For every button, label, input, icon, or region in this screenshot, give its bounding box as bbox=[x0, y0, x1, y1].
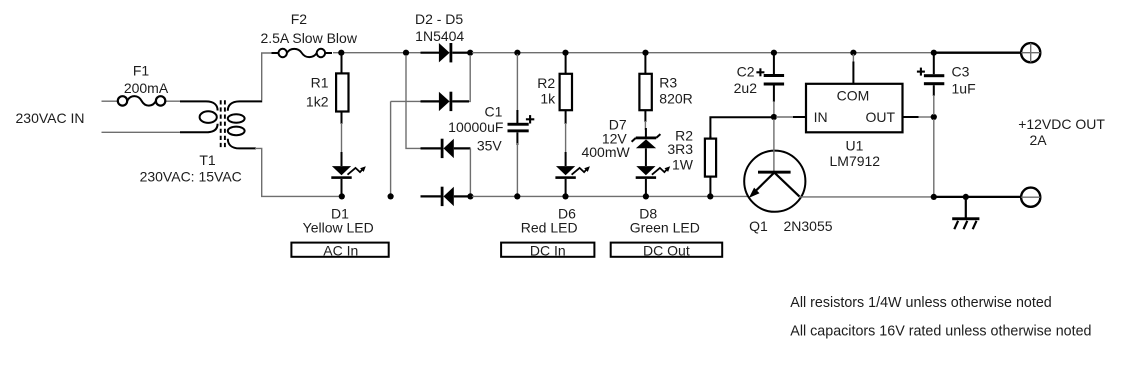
svg-text:1uF: 1uF bbox=[952, 80, 976, 96]
node bridge DC+ bbox=[467, 50, 473, 56]
label D7 voltage bbox=[602, 131, 628, 147]
label T1 ratio bbox=[140, 168, 242, 184]
node bridge AC1 bbox=[403, 50, 409, 56]
label C3 bbox=[952, 64, 970, 80]
node D1 bottom bbox=[339, 193, 345, 199]
resistor R3 bbox=[639, 54, 651, 122]
node IN bbox=[771, 114, 777, 120]
wire AC input bottom bbox=[102, 131, 207, 133]
capacitor C1 bbox=[508, 54, 535, 195]
node COM top bbox=[850, 50, 856, 56]
svg-text:F2: F2 bbox=[291, 11, 308, 27]
wire R2 to D6 bbox=[565, 123, 567, 154]
svg-text:2A: 2A bbox=[1030, 132, 1048, 148]
label R2b value bbox=[667, 141, 693, 157]
label U1 type bbox=[830, 153, 881, 169]
node R2 top bbox=[562, 50, 568, 56]
node C1 bottom bbox=[514, 193, 520, 199]
node R3 top bbox=[642, 50, 648, 56]
diode D3 (bridge second) bbox=[421, 92, 470, 111]
label F2 bbox=[291, 11, 308, 27]
label D6 type bbox=[521, 219, 578, 235]
svg-text:Red LED: Red LED bbox=[521, 219, 578, 235]
label C3 value bbox=[952, 80, 976, 96]
svg-text:Q1: Q1 bbox=[749, 218, 768, 234]
label U1 bbox=[846, 138, 864, 154]
svg-text:OUT: OUT bbox=[866, 109, 896, 125]
label C1 bbox=[485, 103, 503, 119]
fuse F1 bbox=[118, 96, 166, 105]
transformer T1 core bbox=[221, 100, 225, 149]
op-amp U1 regulator box bbox=[806, 84, 903, 133]
label C1 value bbox=[448, 119, 503, 135]
svg-text:2N3055: 2N3055 bbox=[783, 218, 832, 234]
diode D5 (bridge bottom) bbox=[421, 187, 469, 206]
svg-text:1k: 1k bbox=[540, 91, 556, 107]
wire R1 to D1 bbox=[341, 123, 343, 154]
svg-text:DC Out: DC Out bbox=[643, 243, 690, 259]
label Q1 bbox=[749, 218, 768, 234]
wire OUT pin bbox=[903, 116, 933, 118]
wire IN node to U1 bbox=[776, 116, 806, 118]
label R2b power bbox=[672, 156, 694, 172]
svg-text:1W: 1W bbox=[672, 156, 694, 172]
label C2 value bbox=[734, 80, 758, 96]
label D6 bbox=[558, 205, 576, 221]
LED D8 bbox=[636, 166, 671, 195]
node ground bbox=[963, 194, 969, 200]
label C1 voltage bbox=[477, 138, 503, 154]
note capacitors bbox=[790, 324, 1091, 340]
box DC Out bbox=[611, 243, 723, 259]
svg-text:400mW: 400mW bbox=[581, 144, 630, 160]
terminal plus bbox=[1021, 43, 1040, 62]
wire top rail F2 to D2 bbox=[333, 52, 422, 54]
svg-text:820R: 820R bbox=[659, 91, 692, 107]
ground bbox=[952, 197, 979, 229]
label D7 bbox=[609, 117, 627, 133]
node C3 top bbox=[931, 50, 937, 56]
node R1 top bbox=[338, 50, 344, 56]
label R2 bbox=[537, 75, 555, 91]
node C3 bottom bbox=[931, 194, 937, 200]
wire bridge AC1 riser bbox=[406, 55, 422, 148]
label D7 power bbox=[581, 144, 630, 160]
svg-text:COM: COM bbox=[837, 87, 870, 103]
wire R3 to D7 bbox=[644, 121, 646, 130]
box DC In bbox=[501, 243, 594, 259]
svg-text:230VAC IN: 230VAC IN bbox=[16, 110, 85, 126]
label F1 bbox=[133, 62, 150, 78]
wire IN node horizontal bbox=[710, 117, 772, 139]
svg-text:3R3: 3R3 bbox=[667, 141, 693, 157]
svg-text:2.5A Slow Blow: 2.5A Slow Blow bbox=[260, 30, 357, 46]
label F2 value bbox=[260, 30, 357, 46]
svg-text:35V: 35V bbox=[477, 138, 503, 154]
node D6 bottom bbox=[562, 193, 568, 199]
svg-text:IN: IN bbox=[814, 109, 828, 125]
svg-text:C3: C3 bbox=[952, 64, 970, 80]
node C1 top bbox=[514, 50, 520, 56]
terminal minus bbox=[1021, 188, 1040, 207]
wire D3 row bbox=[391, 100, 422, 102]
svg-text:C1: C1 bbox=[485, 103, 503, 119]
wire bridge AC2 riser bbox=[390, 101, 392, 196]
resistor R2 bbox=[560, 54, 572, 124]
note resistors bbox=[790, 295, 1051, 311]
svg-text:Green LED: Green LED bbox=[630, 219, 700, 235]
label R3 bbox=[659, 75, 677, 91]
label R3 value bbox=[659, 91, 692, 107]
svg-text:All resistors 1/4W unless othe: All resistors 1/4W unless otherwise note… bbox=[790, 295, 1051, 311]
transformer T1 primary winding bbox=[200, 101, 218, 132]
svg-text:D2 - D5: D2 - D5 bbox=[415, 11, 463, 27]
node C2 top bbox=[771, 50, 777, 56]
label D2 - D5 bbox=[415, 11, 463, 27]
resistor R2b 3R3 bbox=[705, 136, 716, 195]
svg-text:R2: R2 bbox=[537, 75, 555, 91]
label R2b bbox=[675, 128, 693, 144]
transformer T1 secondary winding bbox=[228, 101, 245, 148]
label R1 value bbox=[306, 94, 329, 110]
svg-text:T1: T1 bbox=[199, 152, 216, 168]
label Q1 type bbox=[783, 218, 832, 234]
svg-text:C2: C2 bbox=[737, 64, 755, 80]
box AC In bbox=[291, 243, 388, 259]
svg-text:DC In: DC In bbox=[530, 243, 566, 259]
LED D6 bbox=[555, 152, 590, 195]
label D8 bbox=[639, 205, 657, 221]
wire top rail to plus terminal bbox=[936, 52, 1021, 54]
wire DC+ riser to D3 bbox=[452, 55, 470, 101]
diode D4 (bridge third) bbox=[421, 139, 471, 158]
label 2A bbox=[1030, 132, 1048, 148]
wire secondary top to F2 riser bbox=[240, 53, 273, 101]
label C2 bbox=[737, 64, 755, 80]
svg-text:2u2: 2u2 bbox=[734, 80, 758, 96]
wire OUT to bottom rail bbox=[933, 119, 935, 195]
svg-text:1k2: 1k2 bbox=[306, 94, 329, 110]
label R2 value bbox=[540, 91, 556, 107]
wire bottom rail DC- to Q1 bbox=[472, 195, 749, 197]
wire bottom rail Q1 to minus terminal bbox=[799, 196, 1021, 198]
label 230VAC IN bbox=[16, 110, 85, 126]
label +12VDC OUT bbox=[1018, 116, 1105, 132]
label D1 type bbox=[303, 219, 374, 235]
capacitor C3 bbox=[917, 54, 944, 115]
svg-text:+12VDC OUT: +12VDC OUT bbox=[1018, 116, 1105, 132]
node bridge AC2 bbox=[388, 193, 394, 199]
svg-text:R1: R1 bbox=[311, 75, 329, 91]
label 1N5404 bbox=[415, 28, 464, 44]
LED D1 bbox=[331, 152, 366, 195]
label T1 bbox=[199, 152, 216, 168]
svg-text:230VAC: 15VAC: 230VAC: 15VAC bbox=[140, 168, 242, 184]
svg-text:Yellow LED: Yellow LED bbox=[303, 219, 374, 235]
svg-text:LM7912: LM7912 bbox=[830, 153, 881, 169]
svg-text:AC In: AC In bbox=[323, 243, 358, 259]
zener D7 bbox=[632, 128, 661, 166]
wire COM pin bbox=[852, 54, 854, 84]
fuse F2 bbox=[272, 49, 333, 57]
label F1 value bbox=[124, 80, 169, 96]
capacitor C2 bbox=[756, 54, 784, 115]
svg-text:F1: F1 bbox=[133, 62, 150, 78]
label R1 bbox=[311, 75, 329, 91]
transistor Q1 bbox=[744, 119, 805, 212]
label D1 bbox=[331, 205, 349, 221]
resistor R1 bbox=[336, 54, 348, 124]
node R2b bottom bbox=[707, 193, 713, 199]
wire top rail D2 to C1 bbox=[472, 52, 940, 54]
svg-text:All capacitors 16V rated unles: All capacitors 16V rated unless otherwis… bbox=[790, 324, 1091, 340]
diode D2 (bridge top) bbox=[421, 43, 469, 62]
wire secondary bottom to lower rail bbox=[240, 148, 343, 196]
node D8 bottom bbox=[643, 193, 649, 199]
node OUT bbox=[931, 114, 937, 120]
svg-text:10000uF: 10000uF bbox=[448, 119, 503, 135]
svg-text:1N5404: 1N5404 bbox=[415, 28, 464, 44]
svg-text:R3: R3 bbox=[659, 75, 677, 91]
svg-text:200mA: 200mA bbox=[124, 80, 169, 96]
label D8 type bbox=[630, 219, 700, 235]
svg-text:U1: U1 bbox=[846, 138, 864, 154]
wire AC input top bbox=[102, 100, 207, 102]
wire D4 to DC- riser bbox=[469, 148, 471, 194]
node bridge DC- bbox=[467, 193, 473, 199]
